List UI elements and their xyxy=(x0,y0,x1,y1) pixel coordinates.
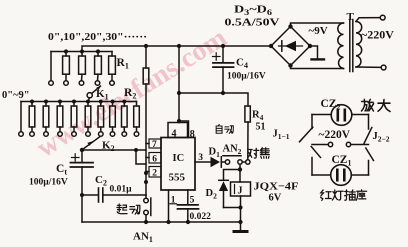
wire R1 bank bus xyxy=(51,51,112,53)
relay J coil xyxy=(231,170,251,197)
label auto (zidong) xyxy=(216,125,233,134)
terminal mains top xyxy=(380,15,385,20)
pin 2 box xyxy=(146,167,161,179)
socket CZ2 xyxy=(312,105,369,126)
switch K2 wiper xyxy=(83,137,100,150)
node pin8 tap xyxy=(177,119,181,123)
svg-text:100µ/16V: 100µ/16V xyxy=(29,178,68,188)
wire pin8 xyxy=(179,121,189,138)
pushbutton AN1 xyxy=(144,198,151,222)
pin 6 box xyxy=(146,153,161,165)
pushbutton AN2 xyxy=(223,156,242,164)
resistor bank2 r4 xyxy=(71,100,77,132)
transformer core xyxy=(350,20,353,72)
node bus relay xyxy=(238,220,242,224)
wire mains bottom xyxy=(356,66,381,68)
node supply second bus xyxy=(177,91,181,95)
resistor bank2 r6 xyxy=(98,100,104,132)
svg-text:~9V: ~9V xyxy=(309,25,328,37)
node bridge left xyxy=(269,44,273,48)
resistor bank2 r5 xyxy=(85,102,91,132)
svg-text:6: 6 xyxy=(152,155,157,165)
contact J2-2 xyxy=(364,115,372,144)
svg-text:0.022: 0.022 xyxy=(190,212,212,222)
contact b2-3 xyxy=(58,132,63,137)
wire 555 supply drop xyxy=(178,46,180,123)
svg-text:4: 4 xyxy=(172,129,177,140)
node C4 top xyxy=(221,44,225,48)
pin 1 wire xyxy=(169,190,177,222)
node K2 pivot xyxy=(80,148,84,152)
wire bottom ground bus xyxy=(82,221,241,223)
wire bridge right to chassis xyxy=(310,46,318,59)
resistor R1a xyxy=(63,52,70,81)
pin 5 wire xyxy=(188,190,195,205)
wire bank2 0 contact drop xyxy=(20,102,22,132)
contact J1-1 xyxy=(300,115,313,142)
pin 7 box xyxy=(146,139,161,150)
contact 40s xyxy=(110,81,115,86)
contact b2-0 xyxy=(19,132,24,137)
node jog xyxy=(134,148,138,152)
svg-text:8: 8 xyxy=(190,129,195,140)
wire node to D2 xyxy=(224,170,241,181)
diode D1 xyxy=(211,157,226,167)
chassis ground bar xyxy=(312,58,325,60)
node R1b xyxy=(80,49,84,53)
node R1c xyxy=(96,49,100,53)
node bridge right xyxy=(308,44,312,48)
svg-text:0"~9": 0"~9" xyxy=(2,90,30,101)
node 555 supply xyxy=(177,44,181,48)
contact b2-7 xyxy=(110,132,115,137)
svg-text:6V: 6V xyxy=(269,193,282,204)
label start (qidong) xyxy=(117,204,140,214)
resistor bank2 r2 xyxy=(43,100,49,132)
wire rail down xyxy=(145,84,147,198)
capacitor C1 xyxy=(71,150,94,222)
svg-text:555: 555 xyxy=(169,172,186,184)
contact b2-6 xyxy=(99,132,104,137)
node relay drive xyxy=(238,167,242,171)
wire relay bottom xyxy=(240,196,242,222)
node bus AN1 xyxy=(144,220,148,224)
capacitor C3 xyxy=(178,205,199,222)
wire AN2 to relay node xyxy=(239,164,241,169)
contact 20s xyxy=(79,81,84,86)
contact J1-1 lower xyxy=(311,147,320,176)
contact J2-2 lower xyxy=(366,148,374,175)
node C4 bottom junction xyxy=(221,91,225,95)
resistor R1c xyxy=(95,52,102,81)
svg-text:100µ/16V: 100µ/16V xyxy=(227,72,266,82)
svg-text:D3~D6: D3~D6 xyxy=(234,4,272,18)
node R2 top xyxy=(144,44,148,48)
resistor bank2 r7 xyxy=(110,100,116,132)
resistor bank2 r9 xyxy=(134,102,140,132)
wire K2 to 555 xyxy=(82,149,146,151)
node bus C3 xyxy=(186,220,190,224)
terminal plug right xyxy=(346,142,350,146)
wire D2 bottom xyxy=(224,207,241,209)
wire to focus contact xyxy=(242,161,245,163)
contact focus xyxy=(246,160,250,164)
resistor bank2 r8 xyxy=(122,100,128,132)
contact 10s xyxy=(64,81,69,86)
resistor R2 xyxy=(143,68,149,84)
node rail a xyxy=(144,171,148,175)
switch K1 wiper xyxy=(87,86,101,102)
wire jog to pin6 xyxy=(136,150,146,164)
wire bank2 bus xyxy=(21,101,137,103)
node rail b xyxy=(144,180,148,184)
svg-text:5: 5 xyxy=(190,195,195,205)
node R1a xyxy=(64,49,68,53)
contact b2-1 xyxy=(30,132,35,137)
node D2 bottom xyxy=(238,205,242,209)
bridge rectifier D3-D6 xyxy=(271,27,310,66)
contact b2-8 xyxy=(122,132,127,137)
contact b2-9 xyxy=(134,132,139,137)
diode D2 xyxy=(219,180,229,207)
wire bridge top to transformer xyxy=(291,23,344,27)
capacitor C2 xyxy=(80,188,146,202)
resistor R1b xyxy=(79,52,86,81)
contact b2-2 xyxy=(44,132,49,137)
svg-text:T: T xyxy=(347,11,355,23)
svg-text:0",10",20",30"······: 0",10",20",30"······ xyxy=(48,32,147,43)
svg-text:0.01µ: 0.01µ xyxy=(110,185,133,195)
transformer T secondary xyxy=(356,22,362,68)
svg-text:51: 51 xyxy=(256,122,266,133)
contact 30s xyxy=(95,81,100,86)
pin 3 wire xyxy=(195,153,211,163)
svg-text:JQX−4F: JQX−4F xyxy=(254,181,299,193)
resistor bank2 r3 xyxy=(57,100,63,132)
watermark www.elecfans.com xyxy=(31,22,232,164)
label red lamp socket (hongdengchazuo) xyxy=(321,190,367,201)
transformer T primary xyxy=(338,23,344,69)
svg-text:0.5A/50V: 0.5A/50V xyxy=(225,17,280,29)
svg-text:~220V: ~220V xyxy=(361,28,394,42)
svg-text:3: 3 xyxy=(198,153,203,163)
svg-text:7: 7 xyxy=(152,140,157,150)
wire second bus xyxy=(179,93,248,106)
resistor bank2 r1 xyxy=(29,100,35,132)
contact 0s xyxy=(49,81,54,86)
contact b2-4 xyxy=(72,132,77,137)
socket CZ1 xyxy=(312,165,369,186)
svg-text:J: J xyxy=(238,186,243,197)
node K1 drop xyxy=(86,100,90,104)
contact b2-5 xyxy=(86,132,91,137)
wire top supply bus xyxy=(82,46,271,52)
resistor R1d xyxy=(109,52,116,81)
resistor R4 xyxy=(245,106,250,160)
terminal plug left xyxy=(328,142,332,146)
wire 0s contact drop xyxy=(50,52,52,81)
svg-text:2: 2 xyxy=(152,169,157,179)
node bridge top xyxy=(288,24,292,28)
label enlarge (fangda) xyxy=(362,99,390,111)
svg-text:IC: IC xyxy=(173,153,185,164)
terminal mains bottom xyxy=(381,65,386,70)
svg-text:~220V: ~220V xyxy=(319,129,351,141)
wire mains top xyxy=(356,18,380,22)
label focus (duijiao) xyxy=(248,148,269,159)
ground xyxy=(234,222,247,232)
capacitor C4 xyxy=(213,46,234,93)
node bus pin1 xyxy=(166,220,170,224)
wire bridge bottom to transformer xyxy=(291,66,344,69)
pin 4 box xyxy=(168,123,188,140)
node bridge bottom xyxy=(288,63,292,67)
wire R2 and trigger rail xyxy=(145,46,147,68)
wire mains row right xyxy=(351,144,369,146)
wire mains row left xyxy=(312,144,328,146)
op-amp U1 555 body xyxy=(161,138,195,191)
